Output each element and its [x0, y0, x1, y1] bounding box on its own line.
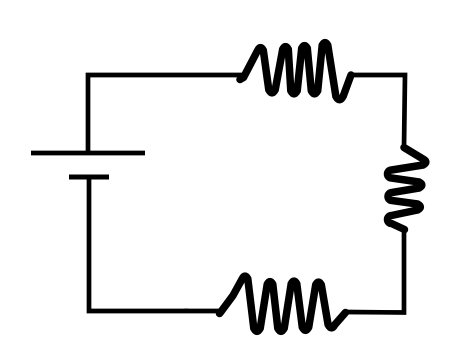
wire top-left (battery positive up and across to R1) [88, 75, 246, 153]
wire bottom-left (battery negative down and across to R3) [89, 179, 220, 311]
resistor R2 [388, 148, 426, 230]
junction nub on bottom wire [185, 309, 189, 312]
battery V1 positive plate [31, 151, 145, 156]
battery V1 negative plate [69, 175, 109, 180]
wire bottom-right (R2 down to corner, left to R3) [346, 229, 404, 313]
resistor R3 [220, 276, 346, 331]
wire top-right (R1 to corner, down to R2) [350, 75, 405, 148]
resistor R1 [240, 43, 351, 100]
